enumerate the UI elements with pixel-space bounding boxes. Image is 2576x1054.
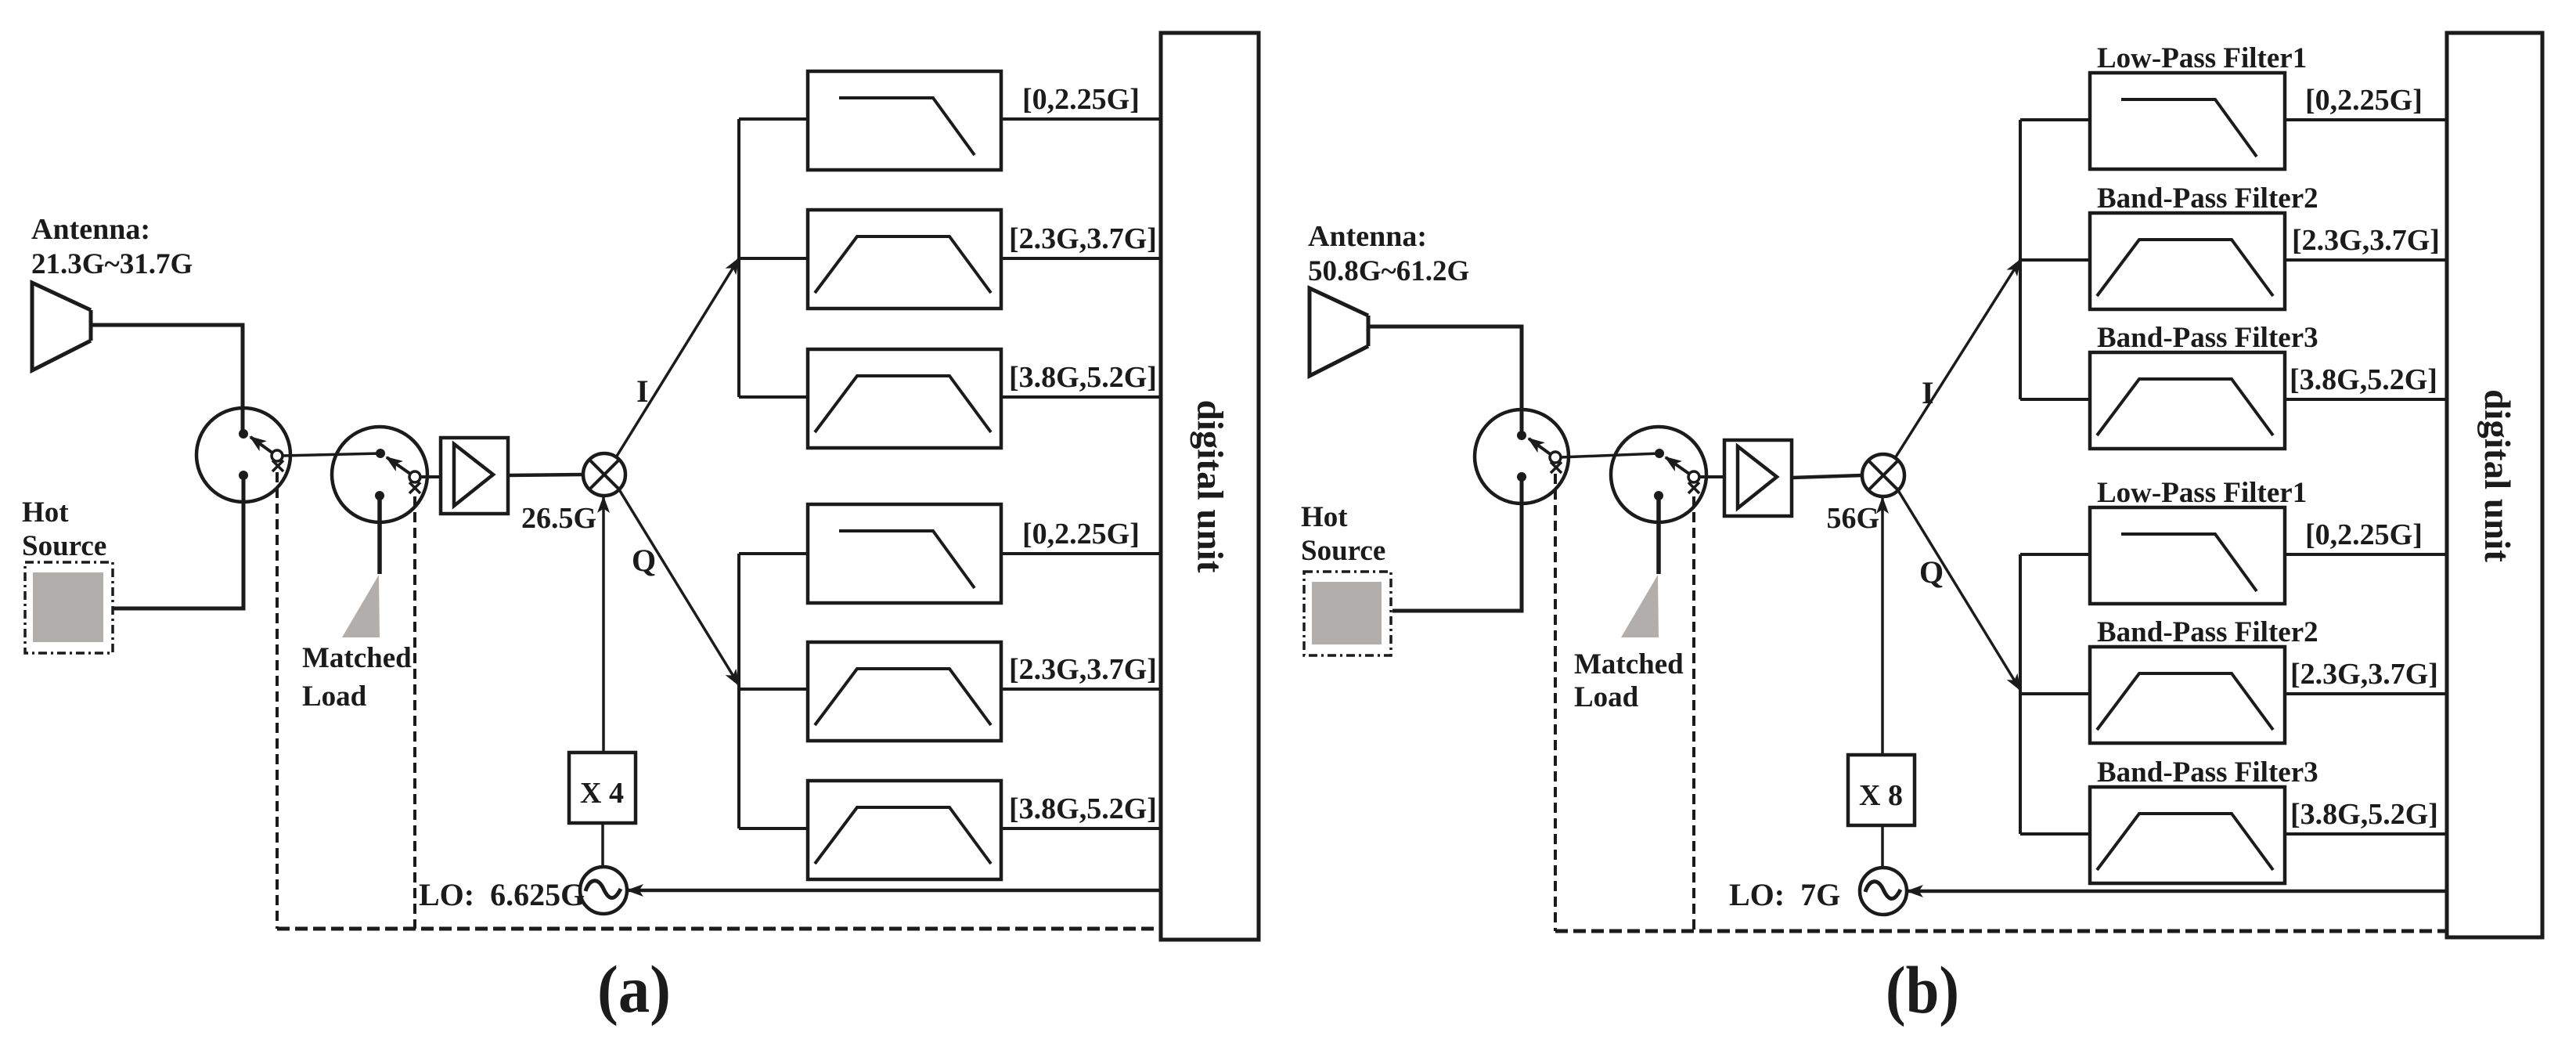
wire I filter bus b xyxy=(2019,120,2022,399)
svg-text:[0,2.25G]: [0,2.25G] xyxy=(1022,518,1140,550)
wire multiplier to oscillator a xyxy=(601,823,604,867)
svg-text:21.3G~31.7G: 21.3G~31.7G xyxy=(31,248,193,280)
wire filter 6 output b xyxy=(2285,832,2447,836)
antenna label b xyxy=(1308,220,1469,287)
multiplier X 4 a xyxy=(569,753,636,823)
wire digital-unit to oscillator a xyxy=(628,889,1161,893)
svg-text:[2.3G,3.7G]: [2.3G,3.7G] xyxy=(2290,658,2438,691)
filter F1 band label b xyxy=(2305,84,2423,117)
antenna horn a xyxy=(32,283,91,370)
filter F2 b xyxy=(2090,182,2318,309)
wire hot-source to SW1 a xyxy=(113,475,243,608)
svg-text:Q: Q xyxy=(632,543,656,578)
wire Q branch a xyxy=(618,487,739,685)
switch SW2 a xyxy=(332,427,427,522)
svg-text:[0,2.25G]: [0,2.25G] xyxy=(1022,83,1140,116)
svg-text:[3.8G,5.2G]: [3.8G,5.2G] xyxy=(1009,792,1157,825)
wire filter 4 output b xyxy=(2285,553,2447,556)
svg-text:Antenna:: Antenna: xyxy=(31,213,150,246)
svg-text:50.8G~61.2G: 50.8G~61.2G xyxy=(1308,255,1469,287)
mixer LO freq label a xyxy=(521,502,596,535)
node Q label b xyxy=(1919,554,1944,590)
filter F4 b xyxy=(2090,477,2307,604)
wire filter 1 output a xyxy=(1001,117,1161,121)
svg-text:X 8: X 8 xyxy=(1859,779,1903,812)
wire filter 4 input a xyxy=(739,552,808,555)
matched load b xyxy=(1574,496,1684,713)
svg-text:LO: 6.625G: LO: 6.625G xyxy=(419,877,585,912)
svg-text:I: I xyxy=(1922,375,1934,410)
filter F5 a xyxy=(808,642,1001,741)
amplifier A1 a xyxy=(441,438,508,514)
wire filter 6 output a xyxy=(1001,827,1161,830)
svg-text:[2.3G,3.7G]: [2.3G,3.7G] xyxy=(1009,222,1157,255)
svg-text:Matched: Matched xyxy=(302,642,412,674)
svg-text:Band-Pass Filter2: Band-Pass Filter2 xyxy=(2097,616,2318,648)
filter F6 band label b xyxy=(2290,798,2438,831)
wire filter 6 input b xyxy=(2020,832,2090,836)
wire LO to mixer b xyxy=(1881,498,1884,755)
filter F1 band label a xyxy=(1022,83,1140,116)
filter F1 b xyxy=(2090,42,2307,169)
wire LO to mixer a xyxy=(602,497,605,753)
svg-text:26.5G: 26.5G xyxy=(521,502,596,535)
filter F5 b xyxy=(2090,616,2318,743)
wire filter 3 input a xyxy=(739,395,808,399)
svg-text:(b): (b) xyxy=(1886,952,1959,1027)
node I label b xyxy=(1922,375,1934,410)
wire SW1 to SW2 b xyxy=(1560,453,1659,457)
wire SW2 to amplifier a xyxy=(420,475,441,478)
filter F3 band label b xyxy=(2290,363,2437,396)
mixer M1 a xyxy=(583,453,625,496)
svg-text:[3.8G,5.2G]: [3.8G,5.2G] xyxy=(2290,363,2437,396)
wire antenna feed b xyxy=(1368,327,1522,435)
wire filter 2 output a xyxy=(1001,257,1161,260)
wire I branch a xyxy=(616,258,739,457)
wire SW1 to SW2 a xyxy=(282,453,380,456)
wire I filter bus a xyxy=(737,119,740,397)
svg-text:I: I xyxy=(636,374,649,409)
control dashed line SW1 a xyxy=(276,472,279,929)
svg-text:Matched: Matched xyxy=(1574,648,1684,680)
digital unit b xyxy=(2447,33,2542,937)
caption (a) xyxy=(597,951,671,1027)
wire amplifier to mixer b xyxy=(1792,475,1862,478)
oscillator LO b xyxy=(1860,868,1907,915)
multiplier X 8 b xyxy=(1848,755,1915,825)
filter F5 band label b xyxy=(2290,658,2438,691)
wire hot-source to SW1 b xyxy=(1392,477,1522,611)
wire filter 2 output b xyxy=(2285,258,2447,262)
wire filter 5 output a xyxy=(1001,688,1161,691)
control dashed bus b xyxy=(1555,929,2447,933)
svg-text:Band-Pass Filter2: Band-Pass Filter2 xyxy=(2097,182,2318,215)
svg-text:Hot: Hot xyxy=(1301,501,1348,533)
wire I branch b xyxy=(1895,260,2020,458)
svg-text:56G: 56G xyxy=(1826,502,1879,535)
control dashed line SW2 b xyxy=(1692,496,1695,931)
filter F4 band label b xyxy=(2305,518,2423,551)
amplifier A1 b xyxy=(1724,440,1792,516)
wire filter 3 output b xyxy=(2285,398,2447,401)
svg-text:Band-Pass Filter3: Band-Pass Filter3 xyxy=(2097,322,2318,354)
svg-text:[2.3G,3.7G]: [2.3G,3.7G] xyxy=(2292,224,2440,257)
wire Q filter bus a xyxy=(737,554,740,828)
filter F3 band label a xyxy=(1009,361,1157,394)
antenna label a xyxy=(31,213,193,280)
svg-text:[2.3G,3.7G]: [2.3G,3.7G] xyxy=(1009,653,1157,686)
svg-text:Low-Pass Filter1: Low-Pass Filter1 xyxy=(2097,42,2307,74)
wire filter 2 input a xyxy=(739,257,808,260)
oscillator LO a xyxy=(580,867,627,914)
wire filter 6 input a xyxy=(739,827,808,830)
switch SW1 a xyxy=(196,408,290,502)
wire amplifier to mixer a xyxy=(508,475,583,475)
hot source block b xyxy=(1301,501,1391,655)
node Q label a xyxy=(632,543,656,578)
mixer LO freq label b xyxy=(1826,502,1879,535)
svg-text:digital unit: digital unit xyxy=(2477,389,2517,562)
svg-text:Hot: Hot xyxy=(22,496,69,529)
filter F2 band label b xyxy=(2292,224,2440,257)
control dashed line SW2 a xyxy=(413,496,416,929)
svg-text:digital unit: digital unit xyxy=(1190,400,1230,573)
svg-text:LO: 7G: LO: 7G xyxy=(1729,877,1840,912)
svg-text:(a): (a) xyxy=(597,951,671,1027)
wire SW2 to amplifier b xyxy=(1699,475,1724,478)
filter F2 band label a xyxy=(1009,222,1157,255)
svg-text:X 4: X 4 xyxy=(580,777,624,810)
wire filter 4 input b xyxy=(2020,553,2090,556)
wire filter 4 output a xyxy=(1001,552,1161,555)
mixer M1 b xyxy=(1862,454,1904,496)
wire filter 1 input b xyxy=(2020,118,2090,121)
wire filter 5 output b xyxy=(2285,692,2447,695)
filter F5 band label a xyxy=(1009,653,1157,686)
control dashed line SW1 b xyxy=(1554,474,1557,931)
svg-text:[0,2.25G]: [0,2.25G] xyxy=(2305,84,2423,117)
LO label b xyxy=(1729,877,1840,912)
hot source block a xyxy=(22,496,113,653)
svg-text:[3.8G,5.2G]: [3.8G,5.2G] xyxy=(2290,798,2438,831)
filter F4 a xyxy=(808,504,1001,603)
wire filter 2 input b xyxy=(2020,258,2090,262)
svg-text:Load: Load xyxy=(1574,681,1639,713)
filter F3 b xyxy=(2090,322,2318,449)
wire Q branch b xyxy=(1897,488,2020,690)
filter F1 a xyxy=(808,71,1001,170)
wire filter 1 input a xyxy=(739,117,808,121)
wire filter 5 input a xyxy=(739,688,808,691)
switch SW2 b xyxy=(1611,427,1706,522)
wire filter 3 output a xyxy=(1001,395,1161,399)
matched load a xyxy=(302,496,412,713)
svg-text:Low-Pass Filter1: Low-Pass Filter1 xyxy=(2097,477,2307,509)
wire filter 3 input b xyxy=(2020,398,2090,401)
wire antenna feed a xyxy=(91,325,243,434)
filter F6 band label a xyxy=(1009,792,1157,825)
svg-text:[3.8G,5.2G]: [3.8G,5.2G] xyxy=(1009,361,1157,394)
svg-text:Source: Source xyxy=(22,530,106,562)
wire Q filter bus b xyxy=(2019,554,2022,834)
wire digital-unit to oscillator b xyxy=(1908,890,2447,893)
antenna horn b xyxy=(1310,288,1368,376)
svg-text:Antenna:: Antenna: xyxy=(1308,220,1427,253)
filter F4 band label a xyxy=(1022,518,1140,550)
caption (b) xyxy=(1886,952,1959,1027)
digital unit a xyxy=(1161,33,1259,940)
wire multiplier to oscillator b xyxy=(1881,825,1884,868)
svg-text:Load: Load xyxy=(302,680,367,713)
filter F6 b xyxy=(2090,756,2318,883)
filter F2 a xyxy=(808,210,1001,309)
svg-text:Q: Q xyxy=(1919,554,1944,590)
wire filter 5 input b xyxy=(2020,692,2090,695)
filter F6 a xyxy=(808,781,1001,879)
control dashed bus a xyxy=(277,927,1161,931)
node I label a xyxy=(636,374,649,409)
switch SW1 b xyxy=(1475,410,1569,504)
svg-text:Source: Source xyxy=(1301,535,1385,567)
filter F3 a xyxy=(808,349,1001,448)
svg-text:[0,2.25G]: [0,2.25G] xyxy=(2305,518,2423,551)
wire filter 1 output b xyxy=(2285,118,2447,121)
LO label a xyxy=(419,877,585,912)
svg-text:Band-Pass Filter3: Band-Pass Filter3 xyxy=(2097,756,2318,789)
